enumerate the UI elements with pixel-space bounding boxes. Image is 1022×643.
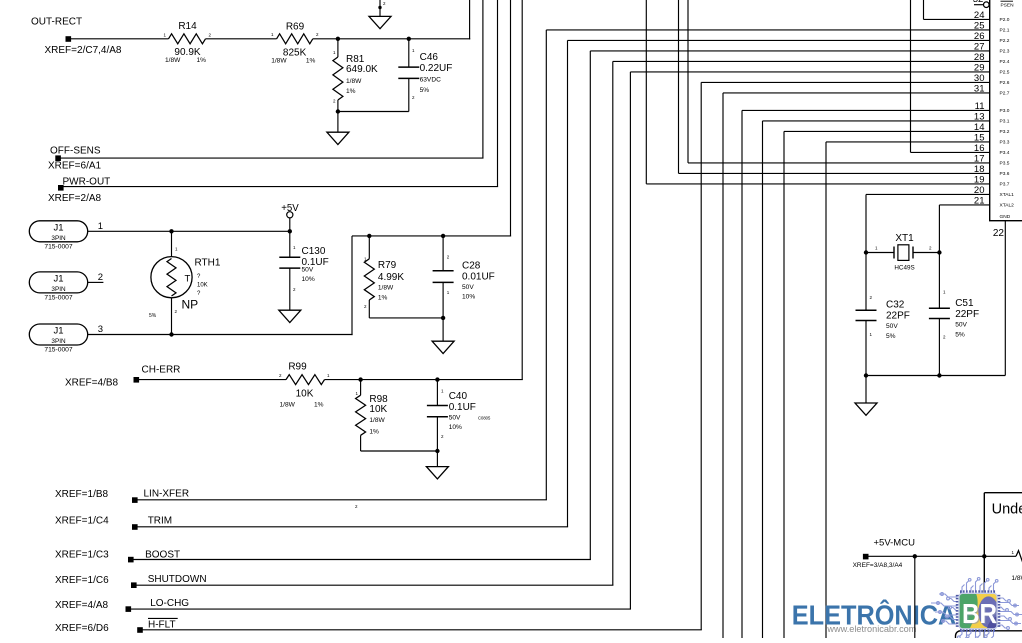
- svg-text:P3.5: P3.5: [1000, 161, 1010, 167]
- svg-text:J1: J1: [53, 274, 63, 285]
- junction +5V-MCU branch: [913, 554, 917, 558]
- wire BOOST to MCU pin: [590, 50, 989, 52]
- wire pin24 to MCU: [924, 18, 990, 20]
- svg-text:715-0007: 715-0007: [44, 244, 73, 251]
- junction C51 bottom: [937, 373, 941, 377]
- svg-text:3: 3: [98, 324, 103, 335]
- svg-text:P2.0: P2.0: [1000, 17, 1010, 23]
- wire pin21 XTAL2 to MCU: [939, 204, 989, 206]
- svg-text:TRIM: TRIM: [148, 516, 172, 527]
- node LIN-XFER square: [132, 497, 138, 503]
- svg-text:R79: R79: [378, 260, 397, 271]
- svg-text:1%: 1%: [197, 57, 207, 64]
- wire XTAL1 vertical: [865, 194, 867, 310]
- junction RTH1 top: [169, 229, 173, 233]
- resistor R81: [337, 39, 339, 57]
- svg-text:P2.7: P2.7: [1000, 91, 1010, 97]
- wire +5V-MCU vertical to bottom edge: [914, 556, 916, 638]
- svg-text:XREF=4/B8: XREF=4/B8: [65, 378, 119, 389]
- wire pin13 vertical to bottom edge: [762, 121, 764, 638]
- svg-text:5%: 5%: [886, 333, 896, 340]
- svg-text:PSEN: PSEN: [1001, 3, 1015, 9]
- svg-text:PWR-OUT: PWR-OUT: [63, 177, 111, 188]
- svg-text:5%: 5%: [149, 313, 157, 319]
- svg-text:P2.1: P2.1: [1000, 28, 1010, 34]
- stub J1-2: [88, 281, 104, 283]
- svg-text:XREF=1/C4: XREF=1/C4: [55, 516, 109, 527]
- svg-text:XT1: XT1: [895, 233, 914, 244]
- svg-text:XTAL1: XTAL1: [1000, 192, 1015, 198]
- svg-text:715-0007: 715-0007: [44, 347, 73, 354]
- svg-text:www.eletronicabr.com: www.eletronicabr.com: [826, 624, 916, 634]
- capacitor C51: [929, 307, 950, 309]
- wire TRIM horizontal: [134, 526, 568, 528]
- wire to ground crystal: [865, 376, 867, 404]
- wire R79-C28 bottom: [369, 317, 443, 319]
- svg-text:XTAL2: XTAL2: [1000, 203, 1015, 209]
- ground top middle: [369, 16, 391, 28]
- pin 32 inversion bubble: [984, 2, 990, 8]
- svg-text:31: 31: [974, 83, 985, 94]
- wire LIN-XFER horizontal: [134, 499, 547, 501]
- svg-text:P2.2: P2.2: [1000, 38, 1010, 44]
- box Undervoltage left edge: [983, 493, 985, 638]
- resistor R14: [169, 34, 206, 44]
- svg-text:XREF=6/A1: XREF=6/A1: [48, 161, 102, 172]
- node H-FLT square: [137, 627, 143, 633]
- svg-text:4.99K: 4.99K: [378, 272, 404, 283]
- resistor R69: [277, 34, 313, 44]
- svg-text:17: 17: [974, 153, 985, 164]
- svg-text:1: 1: [98, 221, 103, 232]
- svg-text:63VDC: 63VDC: [420, 76, 441, 83]
- svg-text:19: 19: [974, 174, 985, 185]
- wire BOOST vertical: [589, 51, 591, 560]
- svg-text:P3.1: P3.1: [1000, 119, 1010, 125]
- svg-text:1%: 1%: [306, 58, 316, 65]
- ground below R81: [327, 132, 349, 144]
- svg-text:P2.6: P2.6: [1000, 80, 1010, 86]
- svg-text:16: 16: [974, 143, 985, 154]
- node SHUTDOWN square: [131, 582, 137, 588]
- pin 32 stub: [974, 4, 984, 6]
- wire LIN-XFER to MCU pin: [546, 29, 989, 31]
- svg-text:P3.2: P3.2: [1000, 129, 1010, 135]
- wire LO-CHG horizontal: [128, 608, 632, 610]
- junction C32 bottom: [864, 373, 868, 377]
- wire pin14 to MCU: [784, 130, 990, 132]
- svg-text:1/8W: 1/8W: [346, 78, 362, 85]
- wire +5V-MCU horizontal: [866, 555, 985, 557]
- svg-text:1%: 1%: [314, 402, 324, 409]
- box bottom right corner: [956, 631, 1022, 643]
- ground below C32: [855, 403, 877, 415]
- svg-text:XREF=1/C3: XREF=1/C3: [55, 550, 109, 561]
- ground below C40: [426, 467, 448, 479]
- svg-text:C46: C46: [420, 52, 439, 63]
- capacitor C46: [408, 39, 410, 67]
- svg-text:10%: 10%: [462, 293, 475, 300]
- thermistor RTH1: [171, 231, 173, 257]
- svg-text:50V: 50V: [462, 284, 474, 291]
- crystal XT1: [866, 252, 894, 254]
- wire pin14 vertical to bottom edge: [783, 131, 785, 638]
- junction at Under box: [982, 554, 986, 558]
- capacitor C40: [436, 380, 438, 406]
- wire pin19 to MCU: [646, 183, 989, 185]
- wire pin17 to MCU: [688, 162, 990, 164]
- ground below C28: [432, 341, 454, 353]
- svg-text:28: 28: [974, 52, 985, 63]
- overline H-FLT: [148, 617, 178, 619]
- svg-text:P3.0: P3.0: [1000, 108, 1010, 114]
- junction C46 top: [407, 37, 411, 41]
- wire pin15 to MCU: [826, 141, 990, 143]
- ground below C130: [279, 310, 301, 322]
- svg-text:0.1UF: 0.1UF: [449, 402, 476, 413]
- svg-text:10K: 10K: [369, 404, 387, 415]
- svg-text:GND: GND: [1000, 214, 1011, 220]
- wire J1-3 corner up to R79 rail: [351, 236, 353, 335]
- MCU U box outline: [990, 0, 1022, 221]
- wire C28 to ground: [442, 318, 444, 341]
- svg-text:25: 25: [974, 20, 985, 31]
- node BOOST square: [128, 557, 134, 563]
- svg-text:OUT-RECT: OUT-RECT: [31, 17, 82, 28]
- svg-text:C32: C32: [886, 300, 905, 311]
- wire pin20 XTAL1 to MCU: [866, 193, 990, 195]
- svg-text:J1: J1: [53, 223, 63, 234]
- wire R98-C40 bottom: [361, 450, 438, 452]
- wire BOOST horizontal: [130, 559, 591, 561]
- wire SHUTDOWN to MCU pin: [613, 60, 990, 62]
- svg-text:1/8W: 1/8W: [378, 285, 394, 292]
- svg-text:XREF=1/C6: XREF=1/C6: [55, 575, 109, 586]
- wire R14-R69: [206, 38, 277, 40]
- svg-text:XREF=2/C7,4/A8: XREF=2/C7,4/A8: [45, 45, 122, 56]
- junction C40 bottom: [435, 449, 439, 453]
- svg-text:13: 13: [974, 111, 985, 122]
- svg-text:XREF=1/B8: XREF=1/B8: [55, 489, 109, 500]
- junction R81 top: [336, 37, 340, 41]
- wire TRIM to MCU pin: [568, 39, 990, 41]
- wire pin31 to MCU: [723, 92, 990, 94]
- junction C28 top: [441, 234, 445, 238]
- svg-text:15: 15: [974, 132, 985, 143]
- svg-text:10K: 10K: [296, 389, 314, 400]
- wire H-FLT to MCU pin: [701, 81, 990, 83]
- node CH-ERR square: [134, 377, 140, 383]
- svg-text:10%: 10%: [302, 276, 315, 283]
- wire rail vertical to top edge: [510, 0, 512, 237]
- wire H-FLT vertical: [700, 82, 702, 629]
- svg-text:1%: 1%: [378, 295, 388, 302]
- svg-text:3PIN: 3PIN: [51, 235, 66, 242]
- svg-text:14: 14: [974, 122, 985, 133]
- svg-text:1/8W: 1/8W: [271, 58, 287, 65]
- junction XT1 pin2: [937, 250, 941, 254]
- wire C40 to ground: [436, 451, 438, 467]
- svg-text:J1: J1: [53, 326, 63, 337]
- wire pin11 to MCU: [742, 109, 990, 111]
- svg-text:26: 26: [974, 31, 985, 42]
- svg-text:C28: C28: [462, 261, 481, 272]
- svg-text:BR: BR: [962, 598, 997, 629]
- svg-text:20: 20: [974, 185, 985, 196]
- wire CH-ERR left: [136, 379, 286, 381]
- wire H-FLT horizontal: [139, 629, 702, 631]
- svg-text:OFF-SENS: OFF-SENS: [50, 146, 101, 157]
- wire pin17 vertical to top edge: [687, 0, 689, 163]
- wire pin11 vertical to bottom edge: [741, 110, 743, 638]
- wire XTAL2 vertical: [938, 205, 940, 308]
- node OFF-SENS square: [55, 155, 61, 161]
- connector J1 pin 3: [29, 324, 87, 345]
- wire J1-1 to +5V/C130: [88, 230, 290, 232]
- wire pin16 vertical to top edge: [910, 0, 912, 152]
- connector J1 pin 2: [29, 272, 87, 293]
- wire SHUTDOWN horizontal: [133, 584, 613, 586]
- svg-text:32: 32: [973, 0, 984, 5]
- wire pin18 vertical to top edge: [678, 0, 680, 173]
- svg-text:T: T: [185, 274, 191, 285]
- svg-text:CH-ERR: CH-ERR: [142, 365, 181, 376]
- junction C130 top: [288, 229, 292, 233]
- svg-text:11: 11: [975, 101, 985, 112]
- wire pin15 vertical to bottom edge: [825, 142, 827, 638]
- wire OFF-SENS horizontal: [58, 157, 484, 159]
- wire CH-ERR vertical to top edge: [521, 0, 523, 380]
- svg-text:P2.4: P2.4: [1000, 59, 1010, 65]
- wire pin19 vertical to top edge: [645, 0, 647, 184]
- wire pin16 to MCU: [911, 151, 990, 153]
- wire crystal bottom rail: [866, 375, 1005, 377]
- node TRIM square: [132, 524, 138, 530]
- wire CH-ERR right: [325, 379, 523, 381]
- junction R81 bottom: [336, 109, 340, 113]
- wire OUT-RECT horizontal: [71, 38, 169, 40]
- svg-text:R69: R69: [286, 22, 305, 33]
- svg-text:3PIN: 3PIN: [51, 338, 66, 345]
- svg-text:1/8W: 1/8W: [165, 57, 181, 64]
- junction RTH1 bottom: [169, 332, 173, 336]
- resistor R98: [360, 380, 362, 396]
- wire R81-C46 bottom: [338, 111, 409, 113]
- wire stub top ground: [379, 0, 381, 16]
- wire J1-3 horizontal: [88, 334, 353, 336]
- svg-text:+5V-MCU: +5V-MCU: [874, 538, 916, 549]
- junction top ground stem: [378, 6, 381, 9]
- svg-text:XREF=6/D6: XREF=6/D6: [55, 623, 109, 634]
- wire OFF-SENS vertical to top edge: [482, 0, 484, 158]
- wire LIN-XFER vertical: [545, 30, 547, 500]
- svg-text:P2.5: P2.5: [1000, 70, 1010, 76]
- svg-text:R99: R99: [288, 362, 307, 373]
- svg-text:P2.3: P2.3: [1000, 49, 1010, 55]
- wire R79-C28 top rail: [352, 235, 511, 237]
- wire pin24 vertical from top edge: [923, 0, 925, 19]
- svg-text:29: 29: [974, 62, 985, 73]
- svg-text:22PF: 22PF: [955, 309, 979, 320]
- svg-text:LO-CHG: LO-CHG: [150, 598, 189, 609]
- wire LO-CHG vertical: [629, 72, 631, 609]
- wire SHUTDOWN vertical: [612, 61, 614, 585]
- resistor R99: [286, 375, 325, 385]
- svg-text:NP: NP: [182, 298, 199, 312]
- svg-text:22: 22: [993, 228, 1005, 239]
- junction C40 top: [435, 377, 439, 381]
- svg-text:5%: 5%: [420, 87, 430, 94]
- svg-text:P3.3: P3.3: [1000, 140, 1010, 146]
- capacitor C28: [442, 236, 444, 271]
- svg-text:0.22UF: 0.22UF: [420, 63, 453, 74]
- svg-text:18: 18: [974, 164, 985, 175]
- wire R69 to top corner: [313, 38, 470, 40]
- svg-text:XREF=2/A8: XREF=2/A8: [48, 193, 102, 204]
- svg-text:50V: 50V: [955, 321, 967, 328]
- svg-text:P3.6: P3.6: [1000, 171, 1010, 177]
- svg-text:24: 24: [974, 10, 985, 21]
- resistor R79: [368, 236, 370, 259]
- svg-text:HC49S: HC49S: [894, 265, 914, 272]
- svg-text:C0805: C0805: [478, 416, 491, 421]
- junction R98 top: [358, 377, 362, 381]
- svg-text:5%: 5%: [955, 332, 965, 339]
- connector J1 pin 1: [29, 221, 87, 242]
- wire PWR-OUT vertical to top edge: [497, 0, 499, 187]
- svg-text:10K: 10K: [197, 283, 208, 289]
- logo chip BR icon: [931, 578, 1022, 641]
- svg-text:LIN-XFER: LIN-XFER: [144, 489, 190, 500]
- svg-text:22PF: 22PF: [886, 311, 910, 322]
- wire pin18 to MCU: [679, 172, 990, 174]
- pin 22 wire from MCU bottom: [1004, 221, 1006, 376]
- svg-text:649.0K: 649.0K: [346, 64, 378, 75]
- junction R79 top: [367, 234, 371, 238]
- svg-text:50V: 50V: [449, 414, 461, 421]
- svg-text:21: 21: [974, 195, 985, 206]
- svg-text:10%: 10%: [449, 424, 462, 431]
- capacitor C130: [289, 231, 291, 257]
- box Undervoltage top edge: [984, 492, 1022, 494]
- svg-text:R14: R14: [178, 21, 197, 32]
- svg-text:1%: 1%: [346, 88, 356, 95]
- svg-text:C130: C130: [302, 246, 326, 257]
- svg-text:1/8W: 1/8W: [1011, 575, 1022, 582]
- svg-text:P3.7: P3.7: [1000, 182, 1010, 188]
- wire pin13 to MCU: [763, 120, 990, 122]
- svg-text:30: 30: [974, 73, 985, 84]
- svg-text:50V: 50V: [302, 266, 314, 273]
- svg-text:2: 2: [98, 272, 103, 283]
- node OUT-RECT square: [66, 36, 72, 42]
- node LO-CHG square: [126, 606, 132, 612]
- svg-text:1/8W: 1/8W: [369, 417, 385, 424]
- svg-text:715-0007: 715-0007: [44, 295, 73, 302]
- junction C28 bottom: [441, 316, 445, 320]
- svg-text:1/8W: 1/8W: [280, 402, 296, 409]
- wire OUT-RECT vertical to top edge: [469, 0, 471, 39]
- svg-text:27: 27: [974, 41, 985, 52]
- wire LO-CHG to MCU pin: [630, 71, 989, 73]
- wire R81 to ground: [337, 112, 339, 133]
- svg-text:C51: C51: [955, 298, 974, 309]
- svg-text:1%: 1%: [369, 428, 379, 435]
- svg-text:XREF=4/A8: XREF=4/A8: [55, 600, 109, 611]
- wire PWR-OUT horizontal: [61, 186, 498, 188]
- svg-text:0.01UF: 0.01UF: [462, 272, 495, 283]
- svg-text:C40: C40: [449, 391, 468, 402]
- node PWR-OUT square: [58, 185, 64, 191]
- wire pin31 vertical to bottom edge: [722, 93, 724, 638]
- node +5V-MCU square: [863, 554, 869, 560]
- junction XT1 pin1: [864, 250, 868, 254]
- svg-text:50V: 50V: [886, 323, 898, 330]
- svg-text:3PIN: 3PIN: [51, 286, 66, 293]
- svg-text:XREF=3/A8,3/A4: XREF=3/A8,3/A4: [853, 562, 903, 569]
- svg-text:Under: Under: [992, 502, 1022, 518]
- wire TRIM vertical: [567, 40, 569, 526]
- svg-text:SHUTDOWN: SHUTDOWN: [148, 574, 207, 585]
- svg-text:RTH1: RTH1: [195, 258, 221, 269]
- svg-text:H-FLT: H-FLT: [148, 619, 176, 630]
- capacitor C32: [856, 309, 877, 311]
- svg-text:P3.4: P3.4: [1000, 150, 1010, 156]
